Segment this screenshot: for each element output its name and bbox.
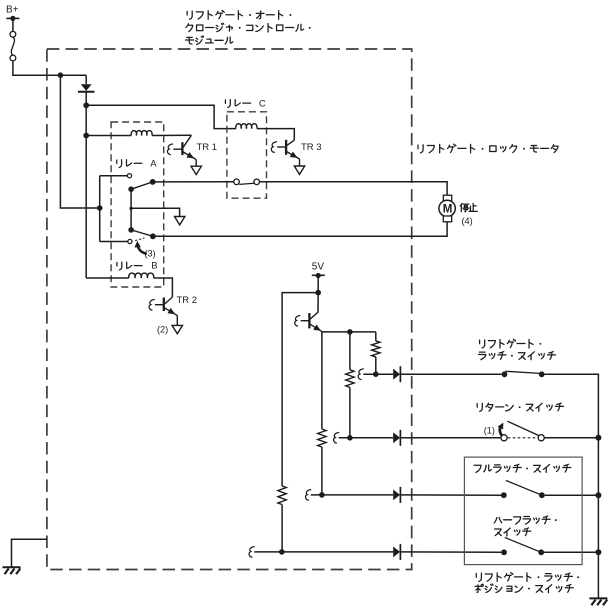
wire 5V down to node B — [317, 276, 319, 293]
wire relay C coil to TR3 collector — [257, 129, 294, 141]
wire B+ rail to diode D1 anode — [85, 75, 87, 84]
wire R4 to position switch row — [281, 505, 283, 552]
svg-text:B: B — [151, 261, 157, 272]
label half latch switch line2 — [495, 528, 531, 536]
svg-text:(1): (1) — [484, 425, 495, 435]
wire relay B coil to TR2 collector — [154, 278, 173, 297]
fusible link — [10, 31, 16, 60]
wire full latch switch to ground bus — [545, 494, 599, 496]
label liftgate latch switch line2 — [478, 352, 555, 360]
wire to relay A pivot contact — [100, 175, 128, 177]
terminal 5V — [312, 273, 325, 278]
junction node A on B+ rail — [58, 72, 64, 78]
motor M liftgate lock motor — [439, 195, 455, 222]
junction R2 / row2 — [347, 435, 353, 441]
relay C contact switch (N.O.) — [234, 179, 260, 185]
wire row3 to diode D4 — [311, 494, 394, 496]
wire D2 to latch switch — [400, 373, 501, 375]
wire Q4 emitter node right — [322, 331, 376, 333]
switch: liftgate latch switch (closed) — [502, 371, 545, 377]
diode D4 (full latch row) — [393, 487, 400, 503]
wire relay A-B contact link — [130, 189, 132, 230]
junction node B at 5V — [315, 290, 321, 296]
junction bus row4 — [595, 549, 601, 555]
wire D1 bus to relay C coil — [86, 105, 236, 128]
arrow (1) return switch actuation — [498, 423, 504, 437]
label liftgate latch switch line1 — [480, 339, 542, 348]
relay A switch contacts — [127, 174, 155, 192]
wire row2 to diode D3 — [339, 437, 394, 439]
label: module name line 1 (liftgate auto) — [187, 10, 291, 19]
resistor R4 left branch — [278, 486, 286, 505]
wire R3 to full-latch row — [321, 447, 323, 495]
svg-text:M: M — [443, 204, 453, 216]
label relay C katakana — [225, 100, 250, 108]
wire B+ feed to node A — [13, 61, 86, 75]
ground arrow at relay common — [175, 217, 185, 225]
svg-text:A: A — [150, 158, 157, 169]
svg-text:TR 2: TR 2 — [177, 295, 198, 306]
junction bus row2 — [595, 435, 601, 441]
resistor R3 — [318, 429, 326, 447]
junction D1 bus to relay C coil feed — [83, 102, 89, 108]
wire R2 to return switch row — [349, 387, 351, 437]
wire D4 to full latch switch — [400, 494, 501, 496]
ground (left, chassis) — [3, 567, 21, 574]
transistor Q4 (5V buffer, unlabeled) — [301, 312, 322, 332]
wire to relay B pivot contact — [100, 241, 128, 243]
label: module name line 3 (module) — [186, 36, 233, 45]
label: module name line 2 (closure control) — [186, 23, 311, 32]
transistor TR1 drives relay A — [173, 135, 196, 166]
wire module case to left ground — [12, 539, 47, 567]
hop mark row 2 — [334, 433, 339, 444]
wire half latch switch to ground bus — [544, 551, 598, 553]
wire B+ down to fusible link — [12, 18, 14, 31]
wire motor return to relay B common — [153, 222, 447, 237]
ground (right, chassis) — [589, 598, 607, 605]
switch: full latch switch (open) — [501, 480, 545, 498]
wire emitter node down to R3 — [321, 332, 323, 429]
svg-text:B+: B+ — [6, 5, 19, 16]
wire row1 to diode D2 — [363, 373, 393, 375]
label full latch switch — [474, 464, 571, 472]
hop mark row 4 — [249, 547, 254, 558]
wire junction down to R2 — [349, 332, 351, 370]
junction R1 / row1 — [373, 371, 379, 377]
transistor TR3 drives relay C — [277, 140, 299, 166]
terminal B+ — [6, 16, 19, 21]
wire node A down to relay pivot feed — [60, 75, 99, 208]
wire row4 to diode D5 — [254, 551, 393, 553]
switch: return switch (open, with travel arc) — [501, 421, 544, 441]
relay B coil — [129, 273, 154, 278]
label half latch switch line1 — [494, 516, 557, 524]
svg-text:TR 1: TR 1 — [197, 142, 218, 153]
label latch position switch line2 — [475, 584, 573, 593]
relay C coil — [236, 124, 257, 129]
relay B switch contacts — [128, 227, 156, 244]
resistor R2 — [346, 370, 354, 388]
wire return switch to ground bus — [544, 437, 598, 439]
svg-text:5V: 5V — [312, 261, 325, 272]
wire mid tap to ground arrow — [131, 208, 180, 216]
arrow (3) contact actuation direction — [134, 241, 146, 254]
wire pivot feed vertical — [99, 176, 101, 242]
wire latch switch to ground bus — [545, 374, 599, 598]
hop mark row 1 — [358, 369, 363, 380]
wire node B to Q4 collector — [317, 293, 319, 313]
resistor R1 — [372, 341, 380, 357]
svg-text:(3): (3) — [145, 248, 156, 258]
wire right branch down to R1 — [375, 332, 377, 341]
svg-text:(4): (4) — [462, 216, 473, 226]
wire relay C contact to motor terminal — [260, 182, 448, 195]
relay A coil — [131, 131, 152, 136]
relay C box — [227, 112, 267, 198]
label relay A katakana — [117, 160, 142, 168]
hop mark row 3 — [306, 490, 311, 501]
wire D3 to return switch — [400, 437, 501, 439]
dashed stub contact travel — [135, 238, 144, 241]
svg-text:(2): (2) — [157, 324, 168, 334]
wire relay A coil to TR1 collector — [152, 134, 191, 136]
diode D1 (supply diode, cathode down) — [78, 84, 95, 92]
junction emitter node / R2 branch — [347, 329, 353, 335]
wire to relay A coil — [86, 135, 131, 137]
junction relay pivot feed node — [97, 205, 103, 211]
junction D1 bus to relay A coil feed — [83, 133, 89, 139]
junction R4 / row4 — [279, 549, 285, 555]
svg-text:C: C — [259, 98, 266, 109]
diode D2 (latch switch row) — [393, 366, 400, 382]
diode D3 (return switch row) — [393, 430, 400, 446]
svg-text:TR 3: TR 3 — [301, 142, 322, 153]
switch: half latch switch (open) — [501, 538, 544, 556]
junction contact mid tap — [129, 207, 132, 210]
wire D1 bus to relay B coil — [86, 277, 129, 279]
label liftgate lock motor — [418, 144, 558, 153]
wire D1 cathode bus down to relay B coil — [85, 92, 87, 278]
label return switch — [477, 403, 563, 411]
wire D5 to half latch switch — [400, 551, 501, 553]
transistor TR2 drives relay B — [155, 297, 177, 325]
label relay B katakana — [117, 262, 142, 270]
label stop (teishi) — [460, 203, 477, 211]
junction bus row3 — [595, 492, 601, 498]
relay A / relay B box — [111, 122, 164, 287]
junction R3 / row3 — [319, 492, 325, 498]
wire R1 to latch switch row — [375, 357, 377, 374]
wire node B to left pull-up branch — [282, 293, 318, 486]
box: latch position switch group — [464, 457, 582, 564]
module box: liftgate auto-closure control module boundary — [47, 49, 412, 570]
label latch position switch line1 — [476, 573, 579, 582]
diode D5 (half latch row) — [393, 544, 400, 560]
wire relay A common to relay C contact — [153, 181, 234, 183]
